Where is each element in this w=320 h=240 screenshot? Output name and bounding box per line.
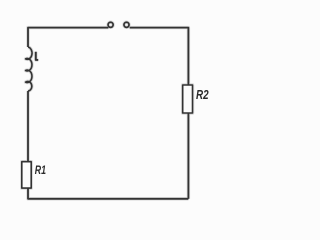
resistor R1 (box) (22, 162, 31, 188)
switch terminal left (circle) (108, 22, 113, 27)
inductor L (coil, 4 loops) (26, 47, 32, 91)
svg-text:R1: R1 (35, 163, 46, 177)
wire: left bottom from R1 to bottom-left corner and bottom horizontal (28, 188, 188, 199)
label L (drawn as strokes to match narrow bold glyph) (36, 52, 38, 60)
wire: top-right horizontal from switch to top-right corner, down to R2 (130, 28, 189, 85)
soft halo underlay imitating jpeg blur (22, 22, 193, 199)
wire: top-left horizontal from top-left corner to switch (28, 28, 108, 47)
resistor R2 (box) (183, 85, 193, 113)
wire: right lower from R2 to bottom-right corner (187, 113, 189, 199)
wire: left middle from coil to R1 (27, 91, 29, 162)
svg-text:R2: R2 (196, 88, 209, 102)
switch terminal right (circle) (124, 22, 129, 27)
